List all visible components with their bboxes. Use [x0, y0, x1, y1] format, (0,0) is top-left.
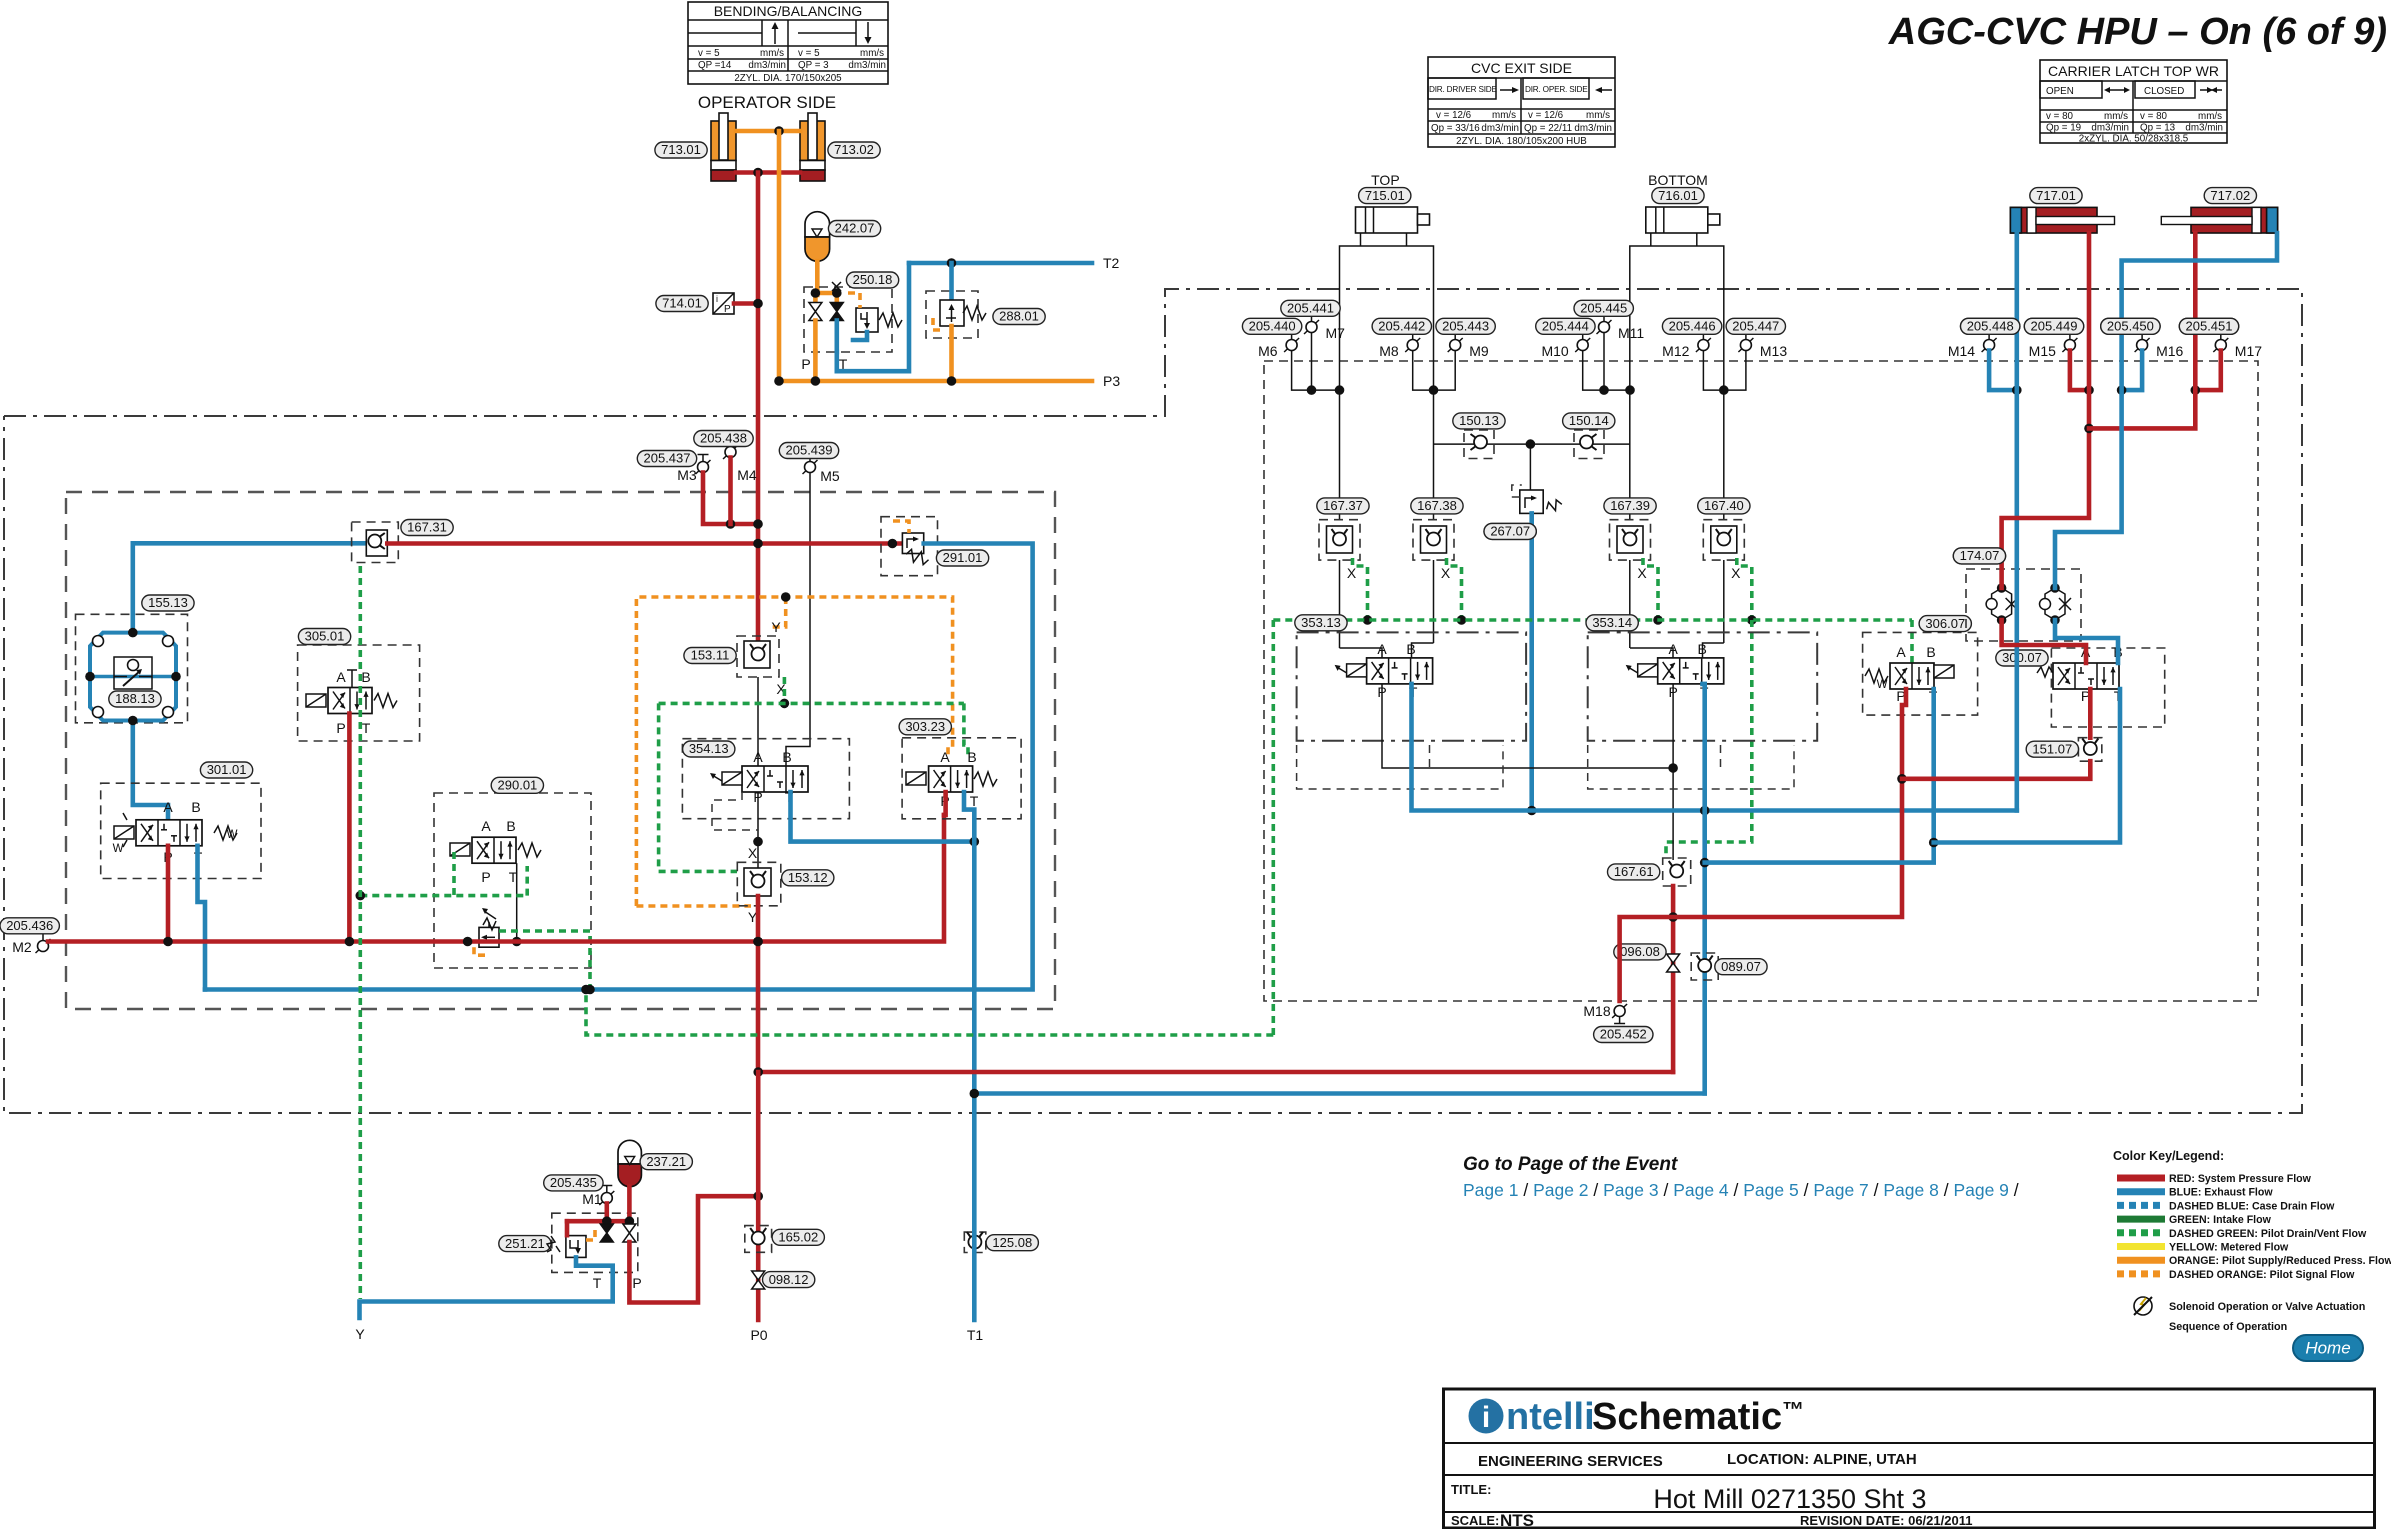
- label oval 250.18: [846, 272, 898, 288]
- svg-text:v = 12/6: v = 12/6: [1528, 110, 1564, 121]
- svg-text:242.07: 242.07: [835, 221, 875, 236]
- svg-text:B: B: [191, 799, 200, 815]
- node OPERATOR SIDE heading: [698, 93, 836, 112]
- wire: TOP cyl to 353.13 A/B: [1340, 643, 1434, 658]
- port M11 205.445: [1597, 315, 1645, 342]
- svg-text:098.12: 098.12: [769, 1272, 809, 1287]
- label oval 205.445: [1574, 300, 1633, 316]
- node X of 167.38: [1441, 565, 1451, 581]
- svg-text:A: A: [753, 749, 763, 765]
- valve 290.01: [434, 793, 591, 968]
- table: CVC EXIT SIDE: [1428, 57, 1615, 147]
- svg-text:P3: P3: [1103, 373, 1120, 389]
- svg-text:dm3/min: dm3/min: [1574, 123, 1612, 134]
- node X below 153.11: [776, 681, 786, 697]
- svg-text:M12: M12: [1662, 343, 1689, 359]
- wire: 354.13 P gauge to 153.12: [753, 792, 763, 868]
- node Y: [355, 1326, 365, 1342]
- wire: red 305.01 P to M2 line: [347, 714, 352, 942]
- svg-text:096.08: 096.08: [1620, 944, 1660, 959]
- label oval 205.439: [779, 443, 838, 459]
- check valve 151.07: [2078, 738, 2101, 762]
- check valve 125.08: [964, 1232, 986, 1253]
- svg-text:M6: M6: [1258, 343, 1278, 359]
- wire: orange accumulator feed: [815, 261, 817, 295]
- node P3: [1103, 373, 1120, 389]
- label oval 713.01: [655, 142, 707, 158]
- wire: blue T1 return header: [974, 1091, 1704, 1096]
- svg-text:2ZYL. DIA. 170/150x205: 2ZYL. DIA. 170/150x205: [734, 73, 842, 84]
- page links: [1463, 1180, 2019, 1200]
- svg-text:X: X: [1637, 565, 1647, 581]
- label oval 150.14: [1563, 413, 1615, 429]
- svg-text:205.444: 205.444: [1542, 319, 1589, 334]
- svg-text:205.436: 205.436: [6, 918, 53, 933]
- svg-text:QP = 3: QP = 3: [798, 60, 829, 71]
- svg-text:LOCATION: ALPINE, UTAH: LOCATION: ALPINE, UTAH: [1727, 1451, 1917, 1468]
- title block intelliSchematic: [1444, 1389, 2375, 1530]
- label oval 305.01: [298, 629, 350, 645]
- node X of 167.37: [1347, 565, 1357, 581]
- svg-text:mm/s: mm/s: [860, 48, 884, 59]
- svg-text:205.450: 205.450: [2107, 319, 2154, 334]
- svg-text:BLUE: Exhaust Flow: BLUE: Exhaust Flow: [2169, 1187, 2273, 1199]
- svg-text:T2: T2: [1103, 255, 1120, 271]
- wire: blue 354.13 T drain: [791, 792, 980, 846]
- wire: right manifold inner dashed box: [1264, 361, 2258, 1001]
- svg-text:167.38: 167.38: [1417, 498, 1457, 513]
- svg-text:W: W: [113, 843, 124, 855]
- port T label 250.18: [839, 356, 848, 372]
- accumulator 237.21: [618, 1140, 641, 1186]
- wire: green header left drop to cross link: [581, 620, 1273, 1035]
- label oval 167.40 label: [1698, 498, 1750, 514]
- wire: blue 301.01 T to exhaust: [198, 846, 206, 990]
- wire: green pilot drain header (left): [659, 703, 968, 871]
- check valve 153.11: [737, 636, 779, 677]
- svg-text:M4: M4: [737, 467, 757, 483]
- svg-text:M1: M1: [582, 1191, 602, 1207]
- svg-text:303.23: 303.23: [905, 719, 945, 734]
- relief valve 291.01: [881, 517, 938, 576]
- wire: red M2 gauge header: [48, 815, 944, 946]
- wire: green X drain of 167.37: [1353, 558, 1373, 625]
- wire: T2 exhaust header: [909, 258, 1092, 268]
- check valve 150.14: [1574, 430, 1604, 459]
- wire: BOTTOM cyl to 353.14 A/B: [1630, 643, 1724, 658]
- wire: red 174.07 to 300.07 A: [2002, 620, 2086, 663]
- needle valve 250.18-2: [830, 303, 843, 353]
- svg-text:Solenoid Operation or Valve Ac: Solenoid Operation or Valve Actuation: [2169, 1301, 2365, 1313]
- valve 303.23: [902, 738, 1021, 819]
- label oval 242.07: [828, 221, 880, 237]
- svg-text:714.01: 714.01: [662, 296, 702, 311]
- label oval 167.38 label: [1411, 498, 1463, 514]
- svg-text:M13: M13: [1760, 343, 1787, 359]
- svg-text:B: B: [506, 818, 515, 834]
- wire: orange 288.01 to P3: [949, 326, 954, 381]
- svg-text:SCALE:: SCALE:: [1451, 1513, 1499, 1528]
- svg-text:CVC EXIT SIDE: CVC EXIT SIDE: [1471, 60, 1572, 76]
- svg-text:Schematic™: Schematic™: [1592, 1396, 1804, 1438]
- label oval 150.13: [1453, 413, 1505, 429]
- svg-text:DASHED BLUE: Case Drain Flow: DASHED BLUE: Case Drain Flow: [2169, 1200, 2335, 1212]
- wire: M3 red tap: [703, 473, 763, 529]
- flow control block 155.13: [76, 614, 188, 723]
- cylinder 713.01: [711, 113, 736, 181]
- wire: red main pressure header: [387, 539, 902, 549]
- check valve 167.39: [1610, 520, 1651, 560]
- svg-text:A: A: [481, 818, 491, 834]
- svg-text:mm/s: mm/s: [2198, 111, 2222, 122]
- label oval 096.08: [1614, 944, 1666, 960]
- svg-text:Qp = 22/11: Qp = 22/11: [1524, 123, 1572, 134]
- svg-text:155.13: 155.13: [148, 595, 188, 610]
- svg-text:188.13: 188.13: [115, 691, 155, 706]
- svg-text:Hot Mill 0271350 Sht 3: Hot Mill 0271350 Sht 3: [1653, 1484, 1926, 1514]
- needle valve 098.12: [752, 1271, 765, 1289]
- svg-text:dm3/min: dm3/min: [2091, 123, 2129, 134]
- wire: green pilot drain header (right): [1273, 618, 1912, 622]
- svg-text:P: P: [336, 720, 345, 736]
- svg-text:P0: P0: [750, 1327, 767, 1343]
- svg-text:B: B: [782, 749, 791, 765]
- valve 305.01: [298, 645, 420, 741]
- wire: blue 717.02 rod side: [2055, 233, 2277, 588]
- svg-text:W: W: [227, 829, 238, 841]
- svg-text:DASHED ORANGE: Pilot Signal Fl: DASHED ORANGE: Pilot Signal Flow: [2169, 1269, 2355, 1281]
- svg-text:125.08: 125.08: [992, 1235, 1032, 1250]
- legend sequence note: [2169, 1321, 2287, 1333]
- port M4 205.438: [723, 440, 757, 484]
- svg-text:Color Key/Legend:: Color Key/Legend:: [2113, 1149, 2224, 1163]
- legend solenoid symbol: [2134, 1297, 2365, 1315]
- node X of 167.39: [1637, 565, 1647, 581]
- wire: blue from T2 into 288.01: [949, 263, 954, 300]
- wire: green X drain of 167.38: [1447, 558, 1467, 625]
- node BOTTOM heading: [1648, 172, 1708, 188]
- label oval 713.02: [828, 142, 880, 158]
- svg-text:205.448: 205.448: [1967, 319, 2014, 334]
- wire: gauge line 153.11 to 354.13 A: [757, 677, 759, 766]
- label oval 205.446: [1662, 318, 1721, 334]
- label oval 290.01: [491, 777, 543, 793]
- wire: green X drain of 167.39: [1643, 558, 1663, 625]
- label oval 288.01: [993, 309, 1045, 325]
- wire: blue 717.01 rod side to drain header: [2015, 233, 2020, 811]
- label oval 151.07: [2026, 741, 2078, 757]
- wire: blue branch header to 167.31: [133, 541, 366, 546]
- port M18 205.452: [1583, 1003, 1627, 1024]
- svg-text:T: T: [362, 720, 371, 736]
- svg-text:089.07: 089.07: [1721, 959, 1761, 974]
- svg-text:205.447: 205.447: [1732, 319, 1779, 334]
- legend row DASHED ORANGE: [2117, 1269, 2355, 1281]
- check valve 153.12: [737, 862, 781, 906]
- port M10 205.444: [1541, 333, 1590, 360]
- node T1: [967, 1327, 984, 1343]
- svg-text:CARRIER LATCH TOP WR: CARRIER LATCH TOP WR: [2048, 63, 2219, 79]
- node Y below 153.12: [748, 909, 758, 925]
- svg-text:OPERATOR SIDE: OPERATOR SIDE: [698, 93, 836, 112]
- port M6 205.440: [1258, 333, 1299, 360]
- svg-text:288.01: 288.01: [999, 309, 1039, 324]
- svg-text:T: T: [970, 793, 979, 809]
- label oval 155.13: [142, 595, 194, 611]
- wire: M6/M7 gauge lines: [1292, 333, 1345, 395]
- check valve 150.13: [1464, 430, 1494, 459]
- wire: blue 174.07 to 300.07 B: [2055, 620, 2118, 663]
- port M9 205.443: [1448, 333, 1489, 360]
- svg-text:AGC-CVC HPU – On (6 of 9): AGC-CVC HPU – On (6 of 9): [1888, 11, 2387, 53]
- wire: green drop to 306.07 A: [1910, 620, 1914, 663]
- svg-text:REVISION DATE: 06/21/2011: REVISION DATE: 06/21/2011: [1800, 1513, 1972, 1528]
- label oval 205.450: [2101, 318, 2160, 334]
- svg-text:mm/s: mm/s: [760, 48, 784, 59]
- pilot dashed lines 354.13: [712, 792, 758, 830]
- reducing valve 288.01: [933, 300, 986, 330]
- svg-text:B: B: [967, 749, 976, 765]
- port M14 205.448: [1948, 333, 1997, 360]
- label oval 167.37 label: [1317, 498, 1369, 514]
- svg-text:2xZYL. DIA. 50/28x318.5: 2xZYL. DIA. 50/28x318.5: [2079, 134, 2189, 145]
- svg-text:153.11: 153.11: [691, 648, 730, 663]
- check valve 167.38: [1413, 520, 1454, 560]
- wire: outer manifold dash-dot boundary: [4, 289, 2302, 1113]
- label oval 205.451 overlay: [2179, 318, 2238, 334]
- svg-text:M18: M18: [1583, 1003, 1610, 1019]
- wire: rod-end equalising line: [1434, 439, 1631, 449]
- label oval 205.438: [694, 431, 753, 447]
- svg-text:2ZYL. DIA. 180/105x200 HUB: 2ZYL. DIA. 180/105x200 HUB: [1456, 136, 1587, 147]
- label oval 300.07: [1996, 650, 2048, 666]
- svg-text:713.01: 713.01: [661, 142, 701, 157]
- svg-text:167.39: 167.39: [1610, 498, 1650, 513]
- svg-text:205.446: 205.446: [1669, 319, 1716, 334]
- wire: blue 251.21 T out: [360, 1257, 613, 1318]
- svg-text:715.01: 715.01: [1365, 188, 1405, 203]
- flow control pair left (red): [1986, 583, 2018, 625]
- check valve 165.02: [745, 1226, 772, 1253]
- wire: green X drain of 167.40: [1737, 558, 1757, 625]
- wire: red 717.01 cap side: [2002, 233, 2094, 588]
- table: BENDING/BALANCING: [688, 2, 888, 84]
- svg-text:205.439: 205.439: [786, 443, 833, 458]
- svg-text:v = 5: v = 5: [698, 48, 720, 59]
- wire: red 301.01 P to M2: [166, 846, 171, 942]
- svg-text:Qp = 13: Qp = 13: [2140, 123, 2176, 134]
- node TOP heading: [1371, 172, 1400, 188]
- wire: M12/M13 gauge lines: [1703, 351, 1746, 395]
- label oval 205.450 overlay: [2101, 318, 2160, 334]
- label oval 205.449 overlay: [2024, 318, 2083, 334]
- cylinder 713.02: [800, 113, 825, 181]
- svg-text:v = 80: v = 80: [2140, 111, 2168, 122]
- svg-text:205.435: 205.435: [550, 1175, 597, 1190]
- label oval 174.07: [1953, 548, 2005, 564]
- svg-text:RED: System Pressure Flow: RED: System Pressure Flow: [2169, 1173, 2312, 1185]
- label oval 165.02: [772, 1229, 824, 1245]
- svg-text:YELLOW: Metered Flow: YELLOW: Metered Flow: [2169, 1242, 2289, 1254]
- wire: blue 267.07 drain: [1527, 513, 1537, 815]
- wire: red 303.23 P down to M2: [944, 792, 946, 815]
- svg-text:DIR. DRIVER SIDE: DIR. DRIVER SIDE: [1429, 85, 1498, 94]
- svg-text:M16: M16: [2156, 343, 2183, 359]
- valve block 251.21 box: [552, 1213, 638, 1272]
- wire: red cap-side link 713.01-713.02: [736, 168, 800, 178]
- svg-text:205.438: 205.438: [700, 431, 747, 446]
- svg-text:P: P: [724, 304, 731, 315]
- wire: blue T1 riser lower: [970, 1089, 980, 1320]
- port M13 205.447: [1738, 333, 1787, 360]
- svg-text:A: A: [163, 799, 173, 815]
- svg-text:P: P: [801, 356, 810, 372]
- port M7 205.441: [1304, 315, 1345, 342]
- cylinder 717.02: [2161, 207, 2277, 233]
- svg-text:ORANGE: Pilot Supply/Reduced P: ORANGE: Pilot Supply/Reduced Press. Flow: [2169, 1255, 2391, 1267]
- svg-text:ntelli: ntelli: [1506, 1396, 1595, 1438]
- svg-text:DASHED GREEN: Pilot Drain/Vent: DASHED GREEN: Pilot Drain/Vent Flow: [2169, 1228, 2367, 1240]
- svg-text:X: X: [1347, 565, 1357, 581]
- svg-text:TOP: TOP: [1371, 172, 1400, 188]
- svg-text:153.12: 153.12: [788, 870, 828, 885]
- node P label 251.21: [632, 1275, 641, 1291]
- wire: red M17 tap: [2191, 351, 2221, 395]
- pressure reducing valve 290.01: [474, 908, 499, 955]
- node X above 153.12: [748, 845, 758, 861]
- wire: blue 303.23 T to T1 riser: [964, 792, 974, 1094]
- home button: [2293, 1335, 2363, 1361]
- svg-text:ENGINEERING SERVICES: ENGINEERING SERVICES: [1478, 1453, 1663, 1470]
- label oval 716.01: [1652, 188, 1704, 204]
- wire: blue T 353.13: [1412, 684, 2017, 815]
- node X of 167.40: [1731, 565, 1741, 581]
- svg-text:X: X: [748, 845, 758, 861]
- svg-text:Y: Y: [771, 619, 781, 635]
- svg-text:237.21: 237.21: [646, 1154, 686, 1169]
- svg-text:353.14: 353.14: [1592, 615, 1632, 630]
- label oval 205.442: [1372, 318, 1431, 334]
- svg-text:Home: Home: [2305, 1339, 2350, 1358]
- legend row GREEN: [2117, 1214, 2272, 1226]
- label oval 188.13: [109, 691, 161, 707]
- svg-text:167.61: 167.61: [1614, 864, 1654, 879]
- needle valve 250.18-1: [809, 303, 822, 353]
- wire: left manifold inner dashed box: [66, 492, 1055, 1009]
- needle valve 251.21-2: [623, 1224, 636, 1242]
- svg-text:205.442: 205.442: [1378, 319, 1425, 334]
- label oval 205.435: [544, 1175, 603, 1191]
- svg-text:TITLE:: TITLE:: [1451, 1482, 1491, 1497]
- port M8 205.442: [1379, 333, 1420, 360]
- svg-text:M8: M8: [1379, 343, 1399, 359]
- label oval 153.11: [684, 648, 736, 664]
- label oval 717.01: [2030, 188, 2082, 204]
- svg-text:M11: M11: [1618, 325, 1644, 341]
- label oval 353.14: [1586, 615, 1638, 631]
- node T label 251.21: [593, 1275, 602, 1291]
- svg-text:B: B: [361, 669, 370, 685]
- label oval 205.443: [1436, 318, 1495, 334]
- needle valve 096.08: [1667, 954, 1680, 972]
- accumulator 242.07: [805, 212, 830, 262]
- go to page heading: [1463, 1154, 1678, 1175]
- label oval 301.01: [200, 762, 252, 778]
- legend row DASHED GREEN: [2117, 1228, 2367, 1240]
- wire: red M15 tap: [2070, 351, 2094, 395]
- svg-text:mm/s: mm/s: [1492, 110, 1516, 121]
- svg-text:M17: M17: [2235, 343, 2262, 359]
- svg-text:716.01: 716.01: [1658, 188, 1698, 203]
- bleed symbol on 250.18: [832, 282, 841, 291]
- label oval 205.452: [1594, 1027, 1653, 1043]
- legend heading: [2113, 1149, 2224, 1163]
- valve 288.01 box: [926, 291, 978, 338]
- wire: orange P leg of 250.18 to P3: [813, 352, 818, 381]
- wire: red P0 riser: [756, 1072, 761, 1320]
- svg-text:dm3/min: dm3/min: [1481, 123, 1519, 134]
- wire: blue M14 tap: [1989, 351, 2022, 395]
- label oval 205.449: [2024, 318, 2083, 334]
- svg-text:167.37: 167.37: [1323, 498, 1363, 513]
- transducer 714.01: [713, 293, 734, 315]
- label oval 303.23: [899, 719, 951, 735]
- svg-text:X: X: [1731, 565, 1741, 581]
- cylinder 716.01 BOTTOM: [1630, 207, 1724, 648]
- table: CARRIER LATCH TOP WR: [2040, 60, 2227, 145]
- svg-text:P: P: [632, 1275, 641, 1291]
- svg-text:205.441: 205.441: [1287, 301, 1334, 316]
- wire: orange pilot supply down to P3: [777, 131, 782, 381]
- relief valve 251.21: [547, 1221, 595, 1257]
- wire: green drop to 167.61: [1666, 620, 1752, 858]
- svg-text:167.31: 167.31: [407, 520, 447, 535]
- svg-text:T: T: [593, 1275, 602, 1291]
- label oval 205.440: [1242, 318, 1301, 334]
- check valve 167.40: [1703, 520, 1744, 560]
- wire: orange inside 250.18: [811, 288, 842, 303]
- svg-text:v = 5: v = 5: [798, 48, 820, 59]
- svg-text:BENDING/BALANCING: BENDING/BALANCING: [714, 3, 863, 19]
- wire: red M1/accumulator feeds: [567, 1187, 634, 1226]
- wire: red below 153.12 to P0 junction: [753, 896, 763, 1072]
- valve 353.13: [1297, 632, 1527, 740]
- svg-text:Sequence of Operation: Sequence of Operation: [2169, 1321, 2287, 1333]
- svg-text:M10: M10: [1541, 343, 1568, 359]
- svg-text:DIR. OPER. SIDE: DIR. OPER. SIDE: [1525, 85, 1588, 94]
- valve block 250.18 box: [804, 287, 892, 352]
- svg-text:M5: M5: [820, 468, 840, 484]
- port M5 205.439: [803, 455, 840, 485]
- wire: P3 pilot supply header: [774, 376, 1092, 386]
- svg-text:300.07: 300.07: [2002, 650, 2042, 665]
- wire: 290.01 T gauge line: [512, 863, 522, 946]
- wire: gauge drop to 267.07: [1529, 444, 1531, 490]
- svg-text:i: i: [1482, 1401, 1490, 1434]
- svg-text:717.02: 717.02: [2210, 188, 2250, 203]
- label oval 205.448 overlay: [1961, 318, 2020, 334]
- check valve 167.37: [1319, 520, 1360, 560]
- svg-text:X: X: [1441, 565, 1451, 581]
- wire: P lines 353.13/353.14 to 167.61: [1382, 684, 1678, 860]
- svg-text:205.449: 205.449: [2031, 319, 2078, 334]
- label oval 167.31: [401, 520, 453, 536]
- svg-text:A: A: [1896, 644, 1906, 660]
- valve 354.13: [682, 739, 849, 819]
- svg-text:M2: M2: [12, 939, 32, 955]
- svg-text:i: i: [716, 294, 718, 304]
- port M1 205.435: [582, 1186, 614, 1208]
